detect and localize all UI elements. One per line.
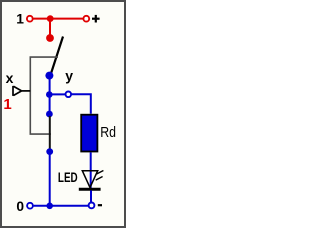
terminal circle 0 (bottom-left, blue) (27, 203, 33, 209)
LED cathode bar (79, 188, 101, 191)
switch top contact dot (red) (46, 34, 54, 42)
wire: node y to resistor top (71, 94, 90, 114)
wire: red stub down to switch contact (49, 19, 51, 36)
wire: lower vertical blue to ground rail (49, 152, 51, 206)
input arrow for x (13, 86, 30, 96)
wire: top rail (red) (33, 18, 83, 20)
LED light rays (96, 171, 104, 181)
terminal circle 1 (top-left, red) (27, 16, 33, 22)
border frame (1, 1, 125, 227)
junction dot bottom rail (46, 203, 53, 210)
wire: LED to minus terminal (90, 190, 92, 202)
svg-text:LED: LED (58, 169, 78, 185)
terminal circle + (top-right, red) (83, 16, 89, 22)
switch S1 lever (open) (51, 37, 64, 76)
svg-text:x: x (6, 70, 14, 86)
svg-text:y: y (65, 68, 73, 84)
node y circle (blue, open) (66, 92, 72, 98)
svg-text:Rd: Rd (100, 124, 116, 141)
node dot4 (46, 148, 53, 155)
node dot3 (46, 111, 53, 118)
wire: main vertical blue (contact to node y junction to dot3) (49, 76, 51, 114)
junction dot on top rail (red) (47, 15, 54, 22)
label - (minus terminal) (98, 204, 102, 206)
svg-text:1: 1 (16, 12, 24, 27)
LED D1 triangle (82, 171, 97, 188)
wire: black vertical segment (switch frame) (49, 116, 51, 150)
wire: resistor through LED to minus terminal (90, 152, 92, 189)
terminal circle - (bottom-right, blue) (89, 203, 95, 209)
resistor Rd (blue filled body) (81, 115, 97, 152)
svg-text:0: 0 (16, 199, 24, 214)
label + (plus terminal) (92, 15, 100, 23)
svg-text:1: 1 (3, 96, 11, 113)
switch bottom contact dot (blue) (45, 72, 53, 80)
junction dot2 (wire to node y) (46, 91, 53, 98)
switch actuator bracket (30, 57, 58, 134)
wire: bottom rail (blue) (34, 205, 88, 207)
wire: branch to node y circle (49, 93, 65, 95)
